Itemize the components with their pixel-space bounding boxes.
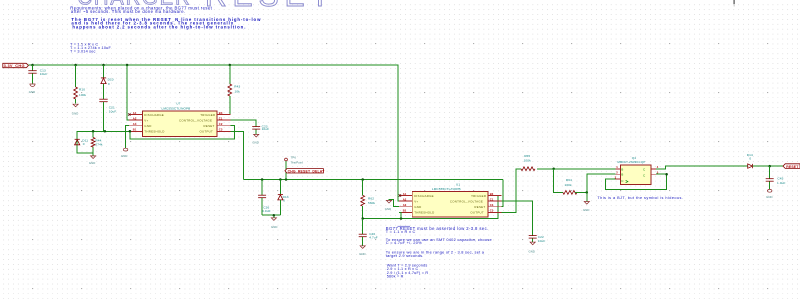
svg-text:TestPoint: TestPoint <box>291 161 304 165</box>
capacitor C45 <box>766 166 786 189</box>
svg-text:happens about 2.2 seconds afte: happens about 2.2 seconds after the high… <box>72 24 246 29</box>
node R65/R64 junction <box>552 168 555 171</box>
svg-text:MMDLT-2N3904-QP: MMDLT-2N3904-QP <box>617 160 645 164</box>
svg-text:TP6: TP6 <box>291 156 297 160</box>
svg-text:10uF: 10uF <box>538 239 546 243</box>
node R64 right junction <box>586 191 589 194</box>
svg-text:B: B <box>621 167 623 171</box>
capacitor C26 <box>258 180 271 216</box>
svg-text:DISCHARGE: DISCHARGE <box>414 194 434 198</box>
svg-text:C1: C1 <box>490 198 494 202</box>
svg-text:R10: R10 <box>79 87 85 91</box>
no-connect x on U7 DISCHARGE <box>128 113 130 115</box>
svg-text:3.3V_CHG: 3.3V_CHG <box>4 63 25 68</box>
svg-text:RESET: RESET <box>474 205 485 209</box>
wire U1 GND pin to ground <box>389 199 399 206</box>
test point TP6 <box>285 156 304 180</box>
pin 4 collector <box>651 168 656 170</box>
pin 3 <box>615 178 620 180</box>
diode D10 <box>101 65 114 99</box>
svg-text:GND: GND <box>529 250 536 254</box>
pin C2 RESET <box>217 125 230 127</box>
node threshold junctions <box>92 130 95 133</box>
svg-text:10uF: 10uF <box>40 72 48 76</box>
svg-text:OUTPUT: OUTPUT <box>470 211 484 215</box>
pin B1 THRESHOLD <box>129 130 142 132</box>
svg-text:274k: 274k <box>95 143 103 147</box>
svg-text:TRIGGER: TRIGGER <box>200 113 215 117</box>
pin A3 GND <box>399 206 412 208</box>
node delay wire junctions <box>261 178 264 181</box>
wire U7 V+ from rail <box>127 65 129 120</box>
svg-text:THRESHOLD: THRESHOLD <box>144 130 164 134</box>
svg-text:B: B <box>621 173 623 177</box>
svg-text:0: 0 <box>749 157 751 161</box>
svg-text:V+: V+ <box>144 118 148 122</box>
global label RESET_B (clipped) <box>783 164 800 169</box>
wire ground net to Q4 pin 2 <box>587 174 616 192</box>
svg-text:GND: GND <box>583 208 590 212</box>
svg-text:GND: GND <box>252 140 259 144</box>
capacitor C13 <box>28 65 47 83</box>
svg-text:C = 4.7uF +/- 20%: C = 4.7uF +/- 20% <box>386 240 422 245</box>
cursor artifact top right <box>733 0 734 4</box>
resistor R65 <box>521 154 554 171</box>
pin B3 TRIGGER <box>488 195 501 197</box>
svg-text:GND: GND <box>121 154 128 158</box>
wire C21 to threshold row <box>104 130 105 132</box>
pin A1 DISCHARGE <box>399 195 412 197</box>
svg-text:GND: GND <box>385 207 392 211</box>
svg-text:GND: GND <box>414 205 421 209</box>
svg-text:CONTROL_VOLTAGE: CONTROL_VOLTAGE <box>179 118 212 122</box>
svg-text:GND: GND <box>144 124 151 128</box>
wire Q4 pin3 loop under transistor <box>606 174 667 189</box>
wire U1 THRESHOLD jog <box>399 212 401 218</box>
pin A1 DISCHARGE <box>129 114 142 116</box>
svg-text:A1: A1 <box>133 111 137 115</box>
svg-text:A2: A2 <box>403 198 407 202</box>
diode D13 <box>278 180 289 216</box>
resistor R44 <box>91 131 103 147</box>
pin C2 RESET <box>488 206 501 208</box>
resistor R64 <box>563 178 587 194</box>
svg-text:D10: D10 <box>108 77 114 81</box>
svg-text:R62: R62 <box>368 196 374 200</box>
transistor Q4 MMDLT-2N3904 <box>615 156 659 185</box>
ground under R64 <box>583 202 590 213</box>
svg-text:GND: GND <box>359 252 366 256</box>
svg-text:1.0uF: 1.0uF <box>777 181 786 185</box>
op-amp U1 LMC555CTL/NOPB <box>399 182 502 217</box>
capacitor C21 <box>99 99 116 131</box>
wire junction down to R64 <box>554 169 563 193</box>
svg-text:B3: B3 <box>490 192 494 196</box>
ground under C46 <box>359 246 366 256</box>
svg-text:10uF: 10uF <box>109 109 117 113</box>
wire R44 bottom to ground <box>92 153 94 156</box>
wire U1 OUTPUT up to R65 <box>501 169 521 213</box>
node rail junctions <box>31 64 34 67</box>
wire Q4 pin5 to loop <box>656 173 667 175</box>
node reset output junction <box>768 165 771 168</box>
wire 3.3V_CHG rail <box>29 65 399 201</box>
svg-text:B1: B1 <box>133 128 137 132</box>
pin 5 collector2 <box>651 173 656 175</box>
wire base wire to Q4 <box>554 168 616 170</box>
svg-text:THRESHOLD: THRESHOLD <box>414 211 434 215</box>
resistor R10 <box>74 65 87 104</box>
diode D14 <box>747 153 783 168</box>
resistor R62 <box>361 180 376 219</box>
note: R calculation <box>387 264 429 279</box>
pin A2 V+ <box>129 119 142 121</box>
svg-text:10k: 10k <box>235 89 241 93</box>
svg-text:DISCHARGE: DISCHARGE <box>144 113 164 117</box>
node threshold node junctions <box>361 217 364 220</box>
wire R64 to ground <box>586 192 588 201</box>
diode D11 <box>75 131 89 146</box>
svg-text:A2: A2 <box>133 117 137 121</box>
wire U7 CONTROL_VOLTAGE to C23 <box>231 120 257 126</box>
svg-text:R43: R43 <box>234 85 240 89</box>
svg-text:B3: B3 <box>219 111 223 115</box>
no-connect x on U1 DISCHARGE <box>399 194 401 196</box>
svg-text:GND: GND <box>29 90 36 94</box>
svg-text:U7: U7 <box>176 102 180 106</box>
svg-text:GND: GND <box>72 111 79 115</box>
pin B1 THRESHOLD <box>399 211 412 213</box>
ground under C26/D13 <box>271 218 278 229</box>
svg-text:B1: B1 <box>403 209 407 213</box>
pin C3 OUTPUT <box>217 130 230 132</box>
svg-text:T = 3.014 sec: T = 3.014 sec <box>70 49 96 53</box>
svg-text:0: 0 <box>83 142 85 146</box>
wire U7 RESET loop under IC to threshold node <box>130 126 235 139</box>
pin 1 base <box>615 168 620 170</box>
global label CHG_RESET_DELAY <box>285 169 325 174</box>
pin A3 GND <box>129 125 142 127</box>
svg-text:GND: GND <box>766 195 773 199</box>
svg-text:100k: 100k <box>524 159 532 163</box>
note: requirements paragraph <box>70 5 212 14</box>
pin C3 OUTPUT <box>488 211 501 213</box>
ground under C22 <box>529 242 536 254</box>
svg-text:RESET: RESET <box>205 0 335 13</box>
svg-text:A3: A3 <box>133 122 137 126</box>
node loop junction <box>665 173 668 176</box>
svg-text:10uF: 10uF <box>262 127 270 131</box>
svg-text:0: 0 <box>108 82 110 86</box>
svg-text:100k: 100k <box>79 93 87 97</box>
wire U1 CONTROL_VOLTAGE to C22 <box>501 201 532 235</box>
op-amp U7 LMC555CTL/NOPB <box>129 102 231 137</box>
svg-text:RESET_B: RESET_B <box>786 165 800 169</box>
svg-text:R64: R64 <box>566 178 572 182</box>
svg-text:C3: C3 <box>219 128 223 132</box>
svg-text:A1: A1 <box>403 192 407 196</box>
wire U7 OUTPUT down to delay node <box>231 131 244 179</box>
svg-text:CHG_RESET_DELAY: CHG_RESET_DELAY <box>288 169 325 173</box>
svg-text:0: 0 <box>283 198 285 202</box>
svg-text:LMC555CTL/NOPB: LMC555CTL/NOPB <box>432 187 461 191</box>
resistor R43 <box>228 65 241 115</box>
capacitor C46 <box>359 219 378 246</box>
note: reset behaviour paragraph <box>71 17 261 29</box>
svg-text:T = 1.1 x R x C: T = 1.1 x R x C <box>386 229 416 234</box>
svg-text:U1: U1 <box>456 182 460 186</box>
wire Q4 collector output <box>656 166 748 169</box>
ground under C23 <box>252 134 259 144</box>
capacitor C23 <box>252 125 269 135</box>
wire U7 threshold node row <box>77 131 129 153</box>
svg-text:after ~5 seconds. This must be: after ~5 seconds. This must be done via … <box>71 9 186 14</box>
pin glyphs inside <box>621 167 646 183</box>
svg-text:TRIGGER: TRIGGER <box>471 194 486 198</box>
svg-text:C3: C3 <box>490 209 494 213</box>
ground under C13 <box>29 84 36 94</box>
svg-text:C2: C2 <box>219 122 223 126</box>
global label 3.3V_CHG <box>3 63 29 68</box>
note: BG77 RESET assertion requirements <box>386 226 492 258</box>
svg-text:1.0uF: 1.0uF <box>262 209 271 213</box>
wire U7 GND pin to ground <box>126 126 129 149</box>
svg-text:target 2.9 seconds.: target 2.9 seconds. <box>386 253 424 258</box>
note: timing formula T = 1.1 R C <box>70 43 111 54</box>
ground under R10 <box>72 104 79 115</box>
svg-text:R65: R65 <box>524 154 530 158</box>
ground at U1 GND pin <box>385 200 392 211</box>
ground under R44 <box>89 156 96 165</box>
pin A2 V+ <box>399 200 412 202</box>
ground at U7 GND pin <box>121 148 128 158</box>
pin C1 CONTROL_VOLTAGE <box>488 200 501 202</box>
svg-text:RESET: RESET <box>204 124 215 128</box>
pin B3 TRIGGER <box>217 114 230 116</box>
svg-text:100k: 100k <box>565 183 573 187</box>
wire U7 output to U1 RESET <box>501 180 503 207</box>
svg-text:4.7uF: 4.7uF <box>369 235 378 239</box>
svg-text:OUTPUT: OUTPUT <box>200 130 214 134</box>
svg-text:This is a BJT, but the symbol: This is a BJT, but the symbol is hideous… <box>597 196 683 200</box>
wire delay node horizontal run <box>243 179 503 181</box>
ground under C45 <box>766 189 773 199</box>
svg-text:560k = R: 560k = R <box>387 275 404 279</box>
wire C26/D13 bottom to ground <box>262 214 280 216</box>
pin C1 CONTROL_VOLTAGE <box>217 119 230 121</box>
wire U1 threshold node row <box>363 196 499 219</box>
svg-text:LMC555CTL/NOPB: LMC555CTL/NOPB <box>162 107 191 111</box>
svg-text:GND: GND <box>271 225 278 229</box>
pin 2 emitter <box>615 173 620 175</box>
svg-text:560k: 560k <box>368 201 376 205</box>
svg-text:C2: C2 <box>490 203 494 207</box>
svg-text:A3: A3 <box>403 203 407 207</box>
svg-text:GND: GND <box>89 161 96 165</box>
svg-text:CONTROL_VOLTAGE: CONTROL_VOLTAGE <box>450 199 483 203</box>
capacitor C22 <box>529 235 546 243</box>
svg-text:V+: V+ <box>414 199 418 203</box>
svg-text:C1: C1 <box>219 117 223 121</box>
